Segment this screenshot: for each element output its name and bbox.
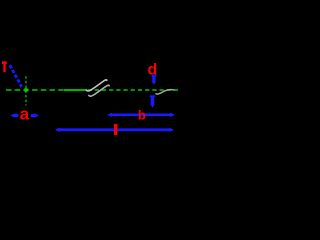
lens plane (green dashed vertical) [25, 76, 27, 105]
red tick on lower dimension line [114, 124, 117, 135]
node: crosshair centre [24, 88, 28, 92]
svg-text:a: a [20, 105, 30, 124]
d dimension arrow lower (blue, tail bar + stem + down tip) [150, 95, 155, 107]
dimension a (blue double arrow, left part) [10, 113, 39, 117]
ray (blue dashed diagonal) [10, 65, 22, 87]
dimension a right part [31, 114, 36, 117]
axis break symbol (grey double squiggle) [86, 80, 109, 96]
svg-text:b: b [138, 108, 146, 123]
dimension line lower (blue double arrow, long) [55, 128, 174, 132]
axis bright segment before break [64, 89, 87, 91]
dimension b (blue double arrow, upper right) [107, 113, 174, 117]
optical axis (green dashed horizontal) [6, 89, 64, 91]
object arrow (red, pointing up) [2, 61, 7, 72]
d dimension arrow upper (blue, tail bar + stem + tip) [152, 75, 156, 85]
right squiggle (grey) [156, 90, 174, 94]
